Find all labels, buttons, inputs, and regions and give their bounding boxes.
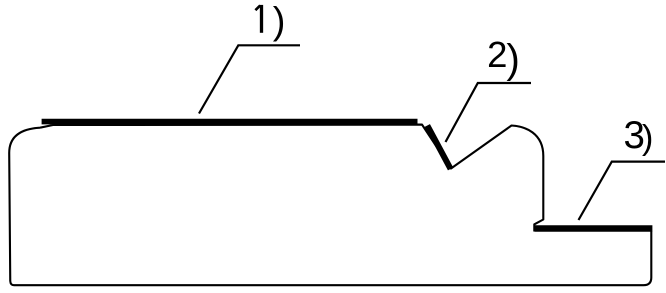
surface 1 thick line (42, 119, 418, 125)
leader 1 (199, 45, 300, 113)
svg-text:): ) (642, 119, 654, 157)
leader 2 (446, 83, 532, 142)
svg-text:): ) (506, 36, 520, 82)
label 1) (255, 5, 260, 10)
surface 2 thick slope (427, 126, 450, 169)
part profile outline (9, 125, 651, 286)
leader 3 (579, 162, 666, 220)
svg-text:2: 2 (487, 34, 507, 75)
surface 3 thick line (535, 225, 653, 232)
svg-text:): ) (273, 1, 286, 43)
